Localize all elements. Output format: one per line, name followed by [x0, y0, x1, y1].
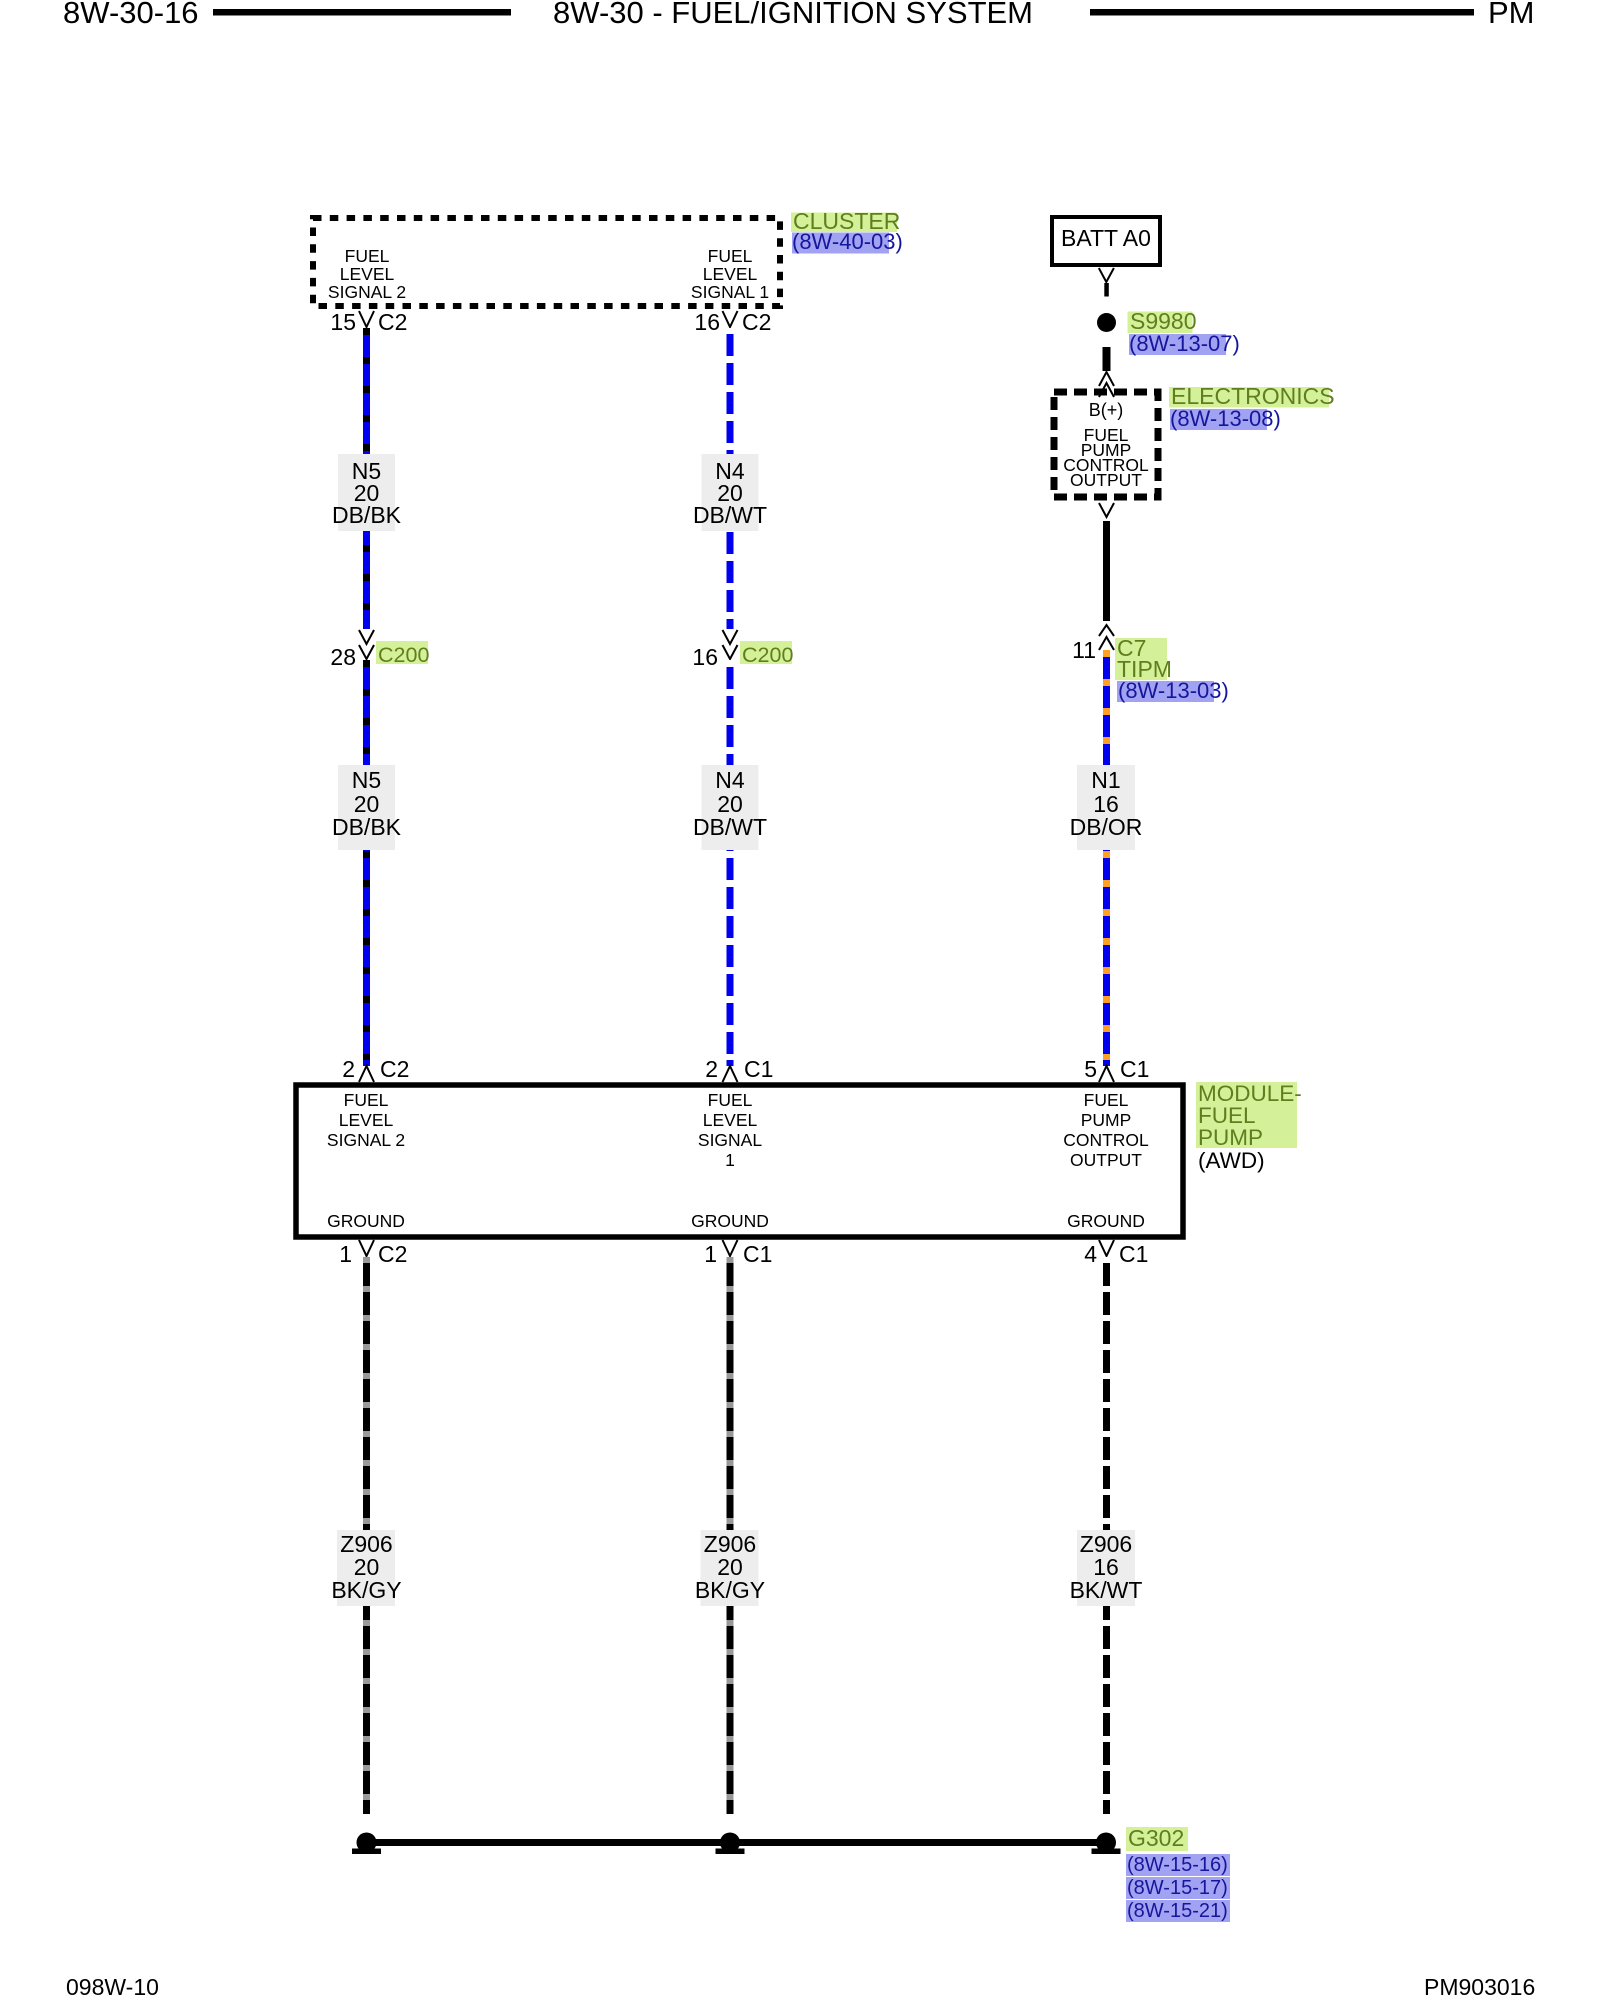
- svg-text:DB/WT: DB/WT: [693, 814, 767, 840]
- svg-text:BATT A0: BATT A0: [1061, 225, 1151, 251]
- svg-text:C1: C1: [744, 1056, 773, 1082]
- svg-text:5: 5: [1084, 1056, 1097, 1082]
- svg-text:BK/GY: BK/GY: [331, 1577, 401, 1603]
- svg-text:PM903016: PM903016: [1424, 1974, 1535, 2000]
- svg-text:SIGNAL: SIGNAL: [698, 1130, 762, 1150]
- svg-text:C200: C200: [742, 643, 793, 667]
- svg-text:8W-30 - FUEL/IGNITION SYSTEM: 8W-30 - FUEL/IGNITION SYSTEM: [553, 0, 1033, 30]
- svg-text:(8W-15-21): (8W-15-21): [1127, 1900, 1228, 1922]
- svg-text:1: 1: [704, 1241, 717, 1267]
- svg-text:C2: C2: [380, 1056, 409, 1082]
- svg-text:4: 4: [1084, 1241, 1097, 1267]
- svg-text:FUEL: FUEL: [344, 1090, 389, 1110]
- svg-text:098W-10: 098W-10: [66, 1974, 159, 2000]
- svg-text:SIGNAL 1: SIGNAL 1: [691, 282, 769, 302]
- svg-text:8W-30-16: 8W-30-16: [63, 0, 199, 30]
- svg-text:(8W-13-03): (8W-13-03): [1118, 678, 1229, 703]
- svg-text:2: 2: [342, 1056, 355, 1082]
- svg-text:GROUND: GROUND: [327, 1211, 405, 1231]
- svg-text:FUEL: FUEL: [708, 1090, 753, 1110]
- svg-text:PUMP: PUMP: [1198, 1125, 1263, 1150]
- svg-text:(8W-13-08): (8W-13-08): [1170, 406, 1281, 431]
- svg-text:DB/WT: DB/WT: [693, 502, 767, 528]
- svg-text:C2: C2: [378, 309, 407, 335]
- svg-text:FUEL: FUEL: [345, 246, 390, 266]
- svg-text:C1: C1: [1119, 1241, 1148, 1267]
- svg-text:1: 1: [339, 1241, 352, 1267]
- svg-text:C2: C2: [378, 1241, 407, 1267]
- svg-text:(8W-40-03): (8W-40-03): [792, 229, 903, 254]
- svg-text:OUTPUT: OUTPUT: [1070, 470, 1142, 490]
- svg-text:B(+): B(+): [1089, 400, 1124, 420]
- svg-text:G302: G302: [1128, 1825, 1184, 1851]
- svg-text:GROUND: GROUND: [1067, 1211, 1145, 1231]
- svg-text:16: 16: [694, 309, 720, 335]
- svg-text:DB/OR: DB/OR: [1070, 814, 1143, 840]
- svg-text:FUEL: FUEL: [708, 246, 753, 266]
- svg-text:DB/BK: DB/BK: [332, 814, 402, 840]
- svg-text:BK/WT: BK/WT: [1070, 1577, 1143, 1603]
- svg-text:PM: PM: [1488, 0, 1535, 30]
- svg-text:15: 15: [330, 309, 356, 335]
- svg-text:PUMP: PUMP: [1081, 1110, 1132, 1130]
- svg-text:(8W-13-07): (8W-13-07): [1129, 331, 1240, 356]
- svg-text:N4: N4: [715, 767, 745, 793]
- svg-text:2: 2: [705, 1056, 718, 1082]
- svg-text:LEVEL: LEVEL: [339, 1110, 394, 1130]
- svg-text:1: 1: [725, 1150, 735, 1170]
- svg-text:(8W-15-17): (8W-15-17): [1127, 1877, 1228, 1899]
- svg-text:DB/BK: DB/BK: [332, 502, 402, 528]
- svg-text:CONTROL: CONTROL: [1063, 1130, 1149, 1150]
- svg-text:16: 16: [692, 644, 718, 670]
- svg-text:(AWD): (AWD): [1198, 1148, 1265, 1173]
- svg-text:C200: C200: [378, 643, 429, 667]
- svg-text:FUEL: FUEL: [1084, 1090, 1129, 1110]
- svg-text:SIGNAL 2: SIGNAL 2: [327, 1130, 405, 1150]
- svg-text:(8W-15-16): (8W-15-16): [1127, 1854, 1228, 1876]
- svg-text:11: 11: [1072, 637, 1096, 663]
- svg-text:BK/GY: BK/GY: [695, 1577, 765, 1603]
- svg-text:LEVEL: LEVEL: [340, 264, 395, 284]
- svg-text:OUTPUT: OUTPUT: [1070, 1150, 1142, 1170]
- svg-text:28: 28: [330, 644, 356, 670]
- svg-text:GROUND: GROUND: [691, 1211, 769, 1231]
- svg-text:LEVEL: LEVEL: [703, 264, 758, 284]
- svg-text:SIGNAL 2: SIGNAL 2: [328, 282, 406, 302]
- svg-text:C2: C2: [742, 309, 771, 335]
- svg-text:LEVEL: LEVEL: [703, 1110, 758, 1130]
- svg-text:C1: C1: [743, 1241, 772, 1267]
- svg-text:C1: C1: [1120, 1056, 1149, 1082]
- svg-text:N5: N5: [352, 767, 381, 793]
- svg-text:N1: N1: [1091, 767, 1120, 793]
